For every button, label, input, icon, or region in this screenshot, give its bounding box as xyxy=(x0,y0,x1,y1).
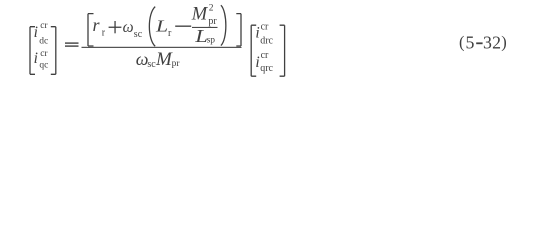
svg-text:cr: cr xyxy=(40,21,48,31)
svg-text:i: i xyxy=(255,25,259,42)
svg-text:qc: qc xyxy=(39,60,48,70)
svg-text:drc: drc xyxy=(260,35,273,46)
svg-text:(: ( xyxy=(459,33,465,52)
plus sign xyxy=(109,27,122,28)
RHS column vector left bracket xyxy=(251,25,256,76)
numerator right square bracket xyxy=(236,14,241,46)
svg-text:): ) xyxy=(501,33,507,52)
svg-text:pr: pr xyxy=(208,16,217,27)
equals sign xyxy=(65,42,79,43)
svg-text:qrc: qrc xyxy=(260,63,273,74)
minus sign xyxy=(175,26,191,27)
svg-text:sp: sp xyxy=(207,36,216,46)
svg-text:M: M xyxy=(155,49,173,70)
svg-text:3: 3 xyxy=(483,33,492,53)
svg-text:i: i xyxy=(255,54,259,71)
LHS column vector right bracket xyxy=(51,27,56,75)
inner fraction bar xyxy=(192,27,218,28)
svg-text:r: r xyxy=(168,28,172,39)
main fraction bar xyxy=(82,47,242,48)
numerator left square bracket xyxy=(88,14,94,46)
svg-text:ω: ω xyxy=(123,19,134,36)
svg-text:2: 2 xyxy=(209,4,214,14)
svg-text:dc: dc xyxy=(39,36,48,46)
LHS column vector left bracket xyxy=(30,27,35,75)
svg-text:cr: cr xyxy=(261,22,269,33)
big left paren xyxy=(149,7,155,47)
svg-text:5: 5 xyxy=(466,33,475,53)
svg-text:cr: cr xyxy=(40,49,48,59)
svg-text:r: r xyxy=(102,28,106,39)
big right paren xyxy=(221,5,226,45)
svg-text:sc: sc xyxy=(147,59,156,70)
svg-text:L: L xyxy=(155,18,168,36)
svg-text:pr: pr xyxy=(172,59,181,69)
svg-text:i: i xyxy=(34,24,38,41)
svg-text:2: 2 xyxy=(492,33,501,53)
svg-text:sc: sc xyxy=(134,29,143,40)
svg-text:r: r xyxy=(93,15,101,35)
svg-text:i: i xyxy=(34,50,38,67)
RHS column vector right bracket xyxy=(280,25,285,76)
svg-text:cr: cr xyxy=(261,50,269,61)
svg-text:M: M xyxy=(191,5,209,25)
